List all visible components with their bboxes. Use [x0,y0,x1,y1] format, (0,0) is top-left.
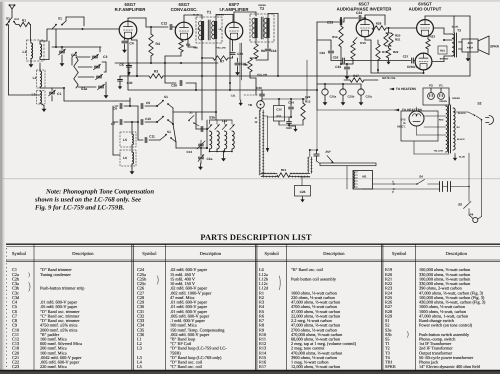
ground under C2a [200,164,202,168]
trimmer C3c [96,75,101,77]
capacitor C25c [358,89,364,95]
ground under C2a [61,60,63,64]
svg-text:S5: S5 [458,203,462,207]
capacitor C32 [328,50,333,52]
plate wire V3 to T2 [233,12,235,22]
capacitor C7 [119,119,121,124]
dashed AVC wire [244,94,258,96]
wire right rail down [469,16,471,76]
wire T1 secondary return [239,43,241,100]
power outlet plug [489,116,494,125]
pickup arrow [327,156,334,164]
svg-text:C11: C11 [149,135,155,139]
tube V2 6SG7 converter [175,22,193,40]
svg-text:YELLOW: YELLOW [216,47,226,50]
wires trimmer strip [76,56,90,58]
resistor R8 [254,44,258,58]
switch S1b contacts [52,25,56,29]
svg-text:M1: M1 [362,175,366,179]
tuning condenser C2a [198,156,203,158]
svg-text:220 mmf. Mica: 220 mmf. Mica [40,364,67,369]
svg-text:Description: Description [72,251,94,256]
capacitor C18 [267,46,269,48]
svg-text:C1: C1 [57,92,61,96]
svg-text:Description: Description [323,251,345,256]
svg-text:S3b: S3b [209,116,215,120]
wire to C36 box [301,177,303,186]
wire V4 to output grids [370,40,372,73]
ground secondary return [240,100,242,103]
svg-text:GREEN: GREEN [452,97,460,100]
svg-text:R11: R11 [277,114,282,118]
svg-text:R4: R4 [156,42,160,46]
switch S1d [157,101,163,106]
svg-text:R17: R17 [259,364,267,369]
svg-text:"C" Band osc. coil: "C" Band osc. coil [170,364,203,369]
resistor R14 [339,26,343,47]
capacitor C30 with ground [120,75,137,77]
wires divider [386,32,391,34]
coil L12d [231,120,233,124]
wires T3 primary [444,33,452,35]
AVC bus wire [128,89,317,91]
capacitor C21 with ground [287,121,292,123]
tube V3 6SF7 IF amplifier [225,22,243,40]
resistor R28 feed [372,26,386,30]
svg-text:C28: C28 [171,84,177,88]
svg-text:C18: C18 [271,49,277,53]
svg-text:C26: C26 [300,190,306,194]
plate wire V1 [127,18,129,21]
svg-text:BLUE: BLUE [193,14,199,17]
wire V3 down [229,40,231,84]
brace C2 group [29,273,30,278]
svg-text:BROWN: BROWN [440,58,449,61]
wire antenna to L1 [29,24,32,26]
long vertical bus x317 [316,22,318,110]
wire output plates [433,27,444,29]
T4 primary winding [453,108,455,150]
svg-text:R21: R21 [395,38,401,42]
svg-text:P2: P2 [429,84,433,88]
svg-text:R14: R14 [332,35,338,39]
coil L6 [120,150,136,166]
svg-text:6V6GT: 6V6GT [407,65,417,69]
resistor R16 [376,44,380,60]
capacitor C5 [115,62,151,64]
wire T2 top feed [267,14,269,19]
capacitor C11 [144,137,146,142]
resistor R4 [149,34,153,56]
padder C13 [199,143,204,145]
capacitor C10 [140,119,142,124]
svg-text:R13: R13 [281,168,287,172]
coil L12a [209,120,211,124]
svg-text:C3: C3 [103,55,107,59]
svg-text:C31: C31 [231,95,236,98]
brace L12 group [279,276,280,290]
svg-text:C30: C30 [127,81,133,85]
svg-text:C5: C5 [119,63,123,67]
capacitor C12 [169,24,171,29]
capacitor C33 with ground [346,64,348,66]
ground under C4 [124,47,126,51]
svg-text:Symbol: Symbol [12,251,27,256]
phono jack TB1 [257,101,265,109]
svg-text:Description: Description [200,251,222,256]
switch S1g [189,116,194,121]
capacitor C36 on AVC line [243,89,256,91]
wire left AVC drop [8,25,10,95]
svg-text:S1: S1 [6,17,10,21]
resistor R6 [179,40,183,52]
tube V1 6SG7 RF amplifier [119,21,137,39]
resistor R15 [351,42,355,59]
switch S1a [9,18,12,22]
table frame rules [6,243,500,245]
svg-text:BLACK: BLACK [457,138,465,141]
coil L12c [224,120,226,124]
brace C25 group [157,276,158,285]
coil L12b [216,120,218,124]
antenna [9,5,14,9]
wire output top rail [454,15,470,17]
ground under L1 [30,61,32,65]
trimmer C3d [98,85,103,87]
capacitor C25a [322,89,328,95]
svg-text:C13: C13 [186,150,192,154]
svg-text:C26: C26 [333,56,339,60]
capacitor phono coupling [314,153,319,155]
tone control R13 shielded cable [261,172,277,174]
resistor R21 [389,33,393,46]
line bypass capacitors [439,182,441,192]
switch S4 [417,180,425,185]
resistor R10 [301,103,305,120]
resistor R20 [384,33,388,46]
resistor S3a ladder [74,57,78,88]
trimmer C3a [92,55,97,57]
svg-text:R3: R3 [154,70,158,74]
plug P1 [438,93,445,100]
wire L1 secondary to grid bus [39,41,41,44]
wires T1 to V3 [215,15,217,22]
svg-text:T3: T3 [457,29,461,33]
plate wires V4 [364,37,366,40]
speaker SPKR [462,39,478,52]
svg-text:TO HEATERS: TO HEATERS [396,87,416,91]
wire heater bus [317,109,399,111]
svg-text:Ant: Ant [14,17,19,21]
svg-text:C33: C33 [335,65,341,69]
svg-text:YELLOW: YELLOW [257,74,268,77]
svg-text:SPKR: SPKR [490,45,500,49]
cathode wire V1 [131,38,133,41]
svg-text:NOTE FIG.: NOTE FIG. [382,76,396,80]
capacitor C4 [124,38,126,40]
svg-text:C25b: C25b [348,95,355,99]
svg-text:S1: S1 [58,17,62,21]
capacitor C9 [140,103,142,108]
long vertical osc wires [206,120,208,148]
T4 secondary winding [446,106,448,152]
svg-text:L5: L5 [137,364,142,369]
capacitor C28 [179,80,181,85]
tube V6 6V6GT output 2 [415,53,432,70]
ground under L6 [131,168,133,172]
svg-text:C9: C9 [146,101,150,105]
svg-text:R18: R18 [440,50,445,53]
switch S1f [160,135,166,140]
coil L5 [120,132,136,147]
wire top tie [262,98,307,100]
ground T4 [454,153,456,155]
AC line lower [363,188,440,190]
svg-text:C6: C6 [113,107,117,111]
switch S1c [72,53,76,57]
svg-text:C10: C10 [145,117,151,121]
svg-text:T1: T1 [207,11,211,15]
ground under speaker [467,52,469,55]
svg-text:C4: C4 [129,42,133,46]
power supply box [401,111,438,141]
svg-text:BLUE: BLUE [452,26,459,29]
svg-text:R15: R15 [360,41,366,45]
junction dots L12 [209,151,211,153]
phono pickup bar [320,163,376,166]
resistor R3 [149,74,163,78]
svg-text:Symbol: Symbol [265,251,280,256]
svg-text:R1: R1 [22,19,26,23]
svg-text:L2: L2 [33,76,37,80]
svg-text:C23: C23 [12,364,19,369]
capacitor C25b [340,89,346,95]
rectifier tube V7 5Y3G [409,111,424,126]
svg-text:"B" Band osc. coil: "B" Band osc. coil [291,267,324,272]
perforation dotted line [6,248,8,370]
ground pushbutton assembly [223,152,225,156]
tube V5 6V6GT output 1 [417,20,434,37]
plug P2 [428,93,435,100]
scan bottom edge band [0,371,500,374]
svg-text:S1: S1 [164,95,168,99]
svg-text:R.F.AMPLIFIER: R.F.AMPLIFIER [115,7,147,12]
capacitor C24 [344,17,358,19]
capacitor C6 [119,103,121,108]
motor M1 [353,171,373,190]
svg-text:L5: L5 [123,138,127,142]
resistor R18 box [438,46,447,54]
svg-text:S3a: S3a [81,87,87,91]
wires cluster verticals [112,106,114,122]
coil L1 antenna [27,40,45,61]
plate wire V2 to T1 [183,15,185,22]
svg-text:YELLOW: YELLOW [434,150,444,153]
svg-text:SPKR: SPKR [385,364,396,369]
wire V2 cathode [187,40,189,48]
B+ bus wire [137,75,149,77]
resistor R9 [248,58,252,72]
T4 wires [424,115,446,117]
wire lower tie [279,124,303,126]
tube V4 6SC7 phase inverter [356,19,374,37]
scan left edge band [0,0,3,374]
wire mid tie [268,116,292,118]
junction dots buses [136,75,138,77]
svg-text:C12: C12 [161,22,167,26]
svg-text:shown is used on the LC-768 on: shown is used on the LC-768 only. See [34,197,141,204]
wire bar to motor [346,166,348,189]
resistor R22 [386,48,390,58]
wire top bus into cluster [115,100,130,102]
wire T3 secondary to speaker [459,41,463,43]
svg-text:12,000 ohms, ½-watt carbon: 12,000 ohms, ½-watt carbon [291,364,341,369]
wiper arrow R12 [263,115,267,117]
svg-text:I.F.AMPLIFIER: I.F.AMPLIFIER [220,7,250,12]
svg-text:C24: C24 [356,11,362,15]
brace C3 group [29,282,31,291]
svg-text:Symbol: Symbol [142,251,157,256]
svg-text:R22: R22 [393,50,399,54]
svg-text:S2: S2 [477,102,481,106]
svg-text:RECT.: RECT. [397,125,405,129]
svg-text:C27: C27 [403,55,409,59]
ground under trimmer strip [105,92,107,96]
power plug P4 [473,217,478,222]
capacitor C31 with ground [237,58,239,62]
svg-text:Note: Phonograph Tone Compensa: Note: Phonograph Tone Compensation [45,189,154,196]
svg-text:PARTS DESCRIPTION LIST: PARTS DESCRIPTION LIST [200,233,312,242]
svg-text:R12: R12 [305,99,311,103]
wire L2 junction [40,87,64,89]
shield riser [307,157,309,173]
svg-text:Tuning condenser: Tuning condenser [40,272,71,277]
svg-text:GREEN: GREEN [258,4,266,7]
svg-text:C20: C20 [276,108,282,112]
svg-text:L3: L3 [137,346,142,351]
resistor R23 [426,39,430,49]
svg-text:R7: R7 [220,60,224,64]
resistor R11 box [274,106,285,122]
wire right edge down [481,120,483,211]
brace S3 group [407,331,408,337]
svg-text:Push-button trimmer strip: Push-button trimmer strip [40,286,84,291]
resistor R7 [213,56,228,60]
svg-text:L3: L3 [32,93,36,97]
svg-text:14" Electro-dynamic 400 ohm fi: 14" Electro-dynamic 400 ohm field [419,364,481,369]
AC line upper [373,183,418,185]
junction dots cluster [131,121,133,123]
svg-text:L6: L6 [123,156,127,160]
resistor R17 [350,78,364,82]
capacitor C1 trimmer [49,91,54,93]
scan top edge band [0,0,500,2]
svg-text:R8: R8 [261,49,265,53]
resistor R13 [277,173,290,177]
grid cap wire V2 [174,26,177,28]
svg-text:AUDIO&PHASE INVERTER: AUDIO&PHASE INVERTER [337,6,393,11]
wire pushbutton tops [210,119,233,121]
svg-text:C36: C36 [256,86,262,90]
grid bus wire to V1 [47,28,119,30]
wire T2 secondary [267,38,269,46]
switch S1e [157,117,163,122]
svg-text:GREEN: GREEN [439,100,447,103]
capacitor C13 padder [196,128,207,130]
capacitor C29 [232,40,234,52]
svg-text:BLACK: BLACK [458,112,466,115]
wire detector to volume [267,56,269,60]
svg-text:Push button coil assembly: Push button coil assembly [291,276,337,281]
ground under R22 [388,58,390,59]
phono pickup coupling [310,149,317,151]
ground under L3 [40,103,44,106]
svg-text:Description: Description [445,251,467,256]
svg-text:S1: S1 [167,130,171,134]
trimmer C3b [94,65,99,67]
svg-text:S1: S1 [189,111,193,115]
svg-text:P.P: P.P [326,150,332,154]
svg-text:C32: C32 [319,51,325,55]
svg-text:CONV.&OSC.: CONV.&OSC. [171,7,198,12]
volume control R12 shielded [259,110,261,175]
wire to oscillator grid [175,142,177,148]
svg-text:R17: R17 [353,74,359,78]
svg-text:T2: T2 [260,7,264,11]
svg-text:Power switch (on tone control): Power switch (on tone control) [419,323,473,328]
svg-text:S4: S4 [419,175,423,179]
svg-text:Symbol: Symbol [392,251,407,256]
svg-text:BLUE: BLUE [459,156,465,159]
svg-text:C23: C23 [327,21,333,25]
svg-text:C25a: C25a [330,95,337,99]
wire band select column [55,29,57,47]
svg-text:R28: R28 [376,22,382,26]
svg-text:Fig. 9 for LC-759 and LC-759B.: Fig. 9 for LC-759 and LC-759B. [35,205,125,212]
svg-text:12: 12 [254,120,258,124]
wire screen bus [151,62,218,64]
resistor R1 [19,22,30,26]
dashed wire to C36 box [300,176,311,178]
wire screens [424,16,426,20]
capacitor C23 [339,19,341,24]
capacitor C36 box [295,186,311,197]
ground under C36 box [302,197,304,200]
svg-text:C2a: C2a [207,157,213,161]
svg-text:C25c: C25c [366,95,373,99]
svg-text:R9: R9 [243,63,247,67]
trimmer C2a [59,50,64,52]
scan fold line [0,178,500,180]
svg-text:RED: RED [439,119,444,122]
svg-text:P1: P1 [439,84,443,88]
svg-text:R23: R23 [430,35,436,39]
svg-text:GREEN: GREEN [216,14,224,17]
svg-text:L1: L1 [23,50,27,54]
power transformer T4 [448,105,450,153]
svg-text:AUDIO OUTPUT: AUDIO OUTPUT [409,6,442,11]
